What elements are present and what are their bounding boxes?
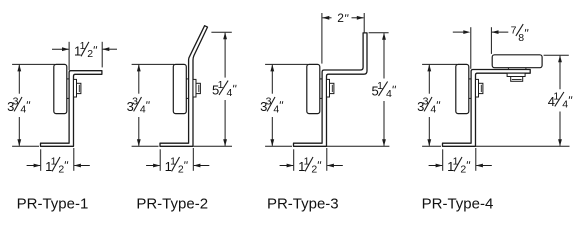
glass panel fig2 — [173, 64, 186, 113]
svg-text:2: 2 — [311, 163, 317, 175]
glass panel fig4 left — [456, 64, 469, 113]
svg-text:4: 4 — [386, 88, 392, 100]
svg-text:4: 4 — [430, 103, 436, 115]
dimension 3-3/4in fig2 — [127, 64, 175, 146]
dimension 1-1/2in bottom fig2 — [146, 148, 209, 175]
fastener clip fig4 top — [507, 73, 525, 81]
svg-text:PR-Type-1: PR-Type-1 — [17, 195, 89, 212]
svg-text:2: 2 — [58, 163, 64, 175]
dimension 1-1/2in top fig1 — [52, 40, 117, 70]
setting pads fig4 left — [469, 79, 471, 99]
svg-text:2: 2 — [178, 163, 184, 175]
dimension 2in top fig3 — [322, 11, 364, 63]
dimension 3-3/4in fig3 — [260, 64, 308, 146]
figure PR-Type-2 bracket profile with slanted tab — [160, 26, 208, 147]
dimension 4-1/4in fig4 — [476, 55, 572, 146]
svg-text:4: 4 — [226, 87, 232, 99]
dimension 5-1/4in fig2 — [194, 32, 237, 146]
dimension 3-3/4in fig1 — [7, 64, 55, 146]
svg-text:2: 2 — [337, 11, 344, 25]
dimension 5-1/4in fig3 — [327, 33, 396, 147]
dimension 1-1/2in bottom fig1 — [27, 148, 90, 175]
svg-text:4: 4 — [20, 103, 26, 115]
fastener clip fig1 — [74, 79, 81, 97]
setting pads fig4 top — [508, 68, 526, 69]
dimension 3-3/4in fig4 — [417, 64, 457, 146]
dimension 7/8in top fig4 — [453, 24, 528, 69]
figure PR-Type-1 bracket profile — [41, 71, 102, 147]
svg-text:PR-Type-4: PR-Type-4 — [422, 195, 494, 212]
figure PR-Type-3 bracket profile with upturned flange — [294, 33, 368, 146]
glass panel fig4 top — [492, 55, 542, 68]
svg-text:4: 4 — [562, 98, 568, 110]
svg-text:7: 7 — [511, 25, 517, 37]
svg-text:PR-Type-2: PR-Type-2 — [136, 195, 208, 212]
figure PR-Type-4 bracket profile with long top flange — [443, 70, 531, 147]
fastener clip fig2 — [193, 79, 200, 97]
glass panel fig1 — [54, 64, 67, 113]
dimension 1-1/2in bottom fig4 — [429, 148, 492, 175]
setting pads fig3 — [320, 79, 322, 99]
svg-text:4: 4 — [140, 103, 146, 115]
fastener clip fig3 — [327, 79, 334, 97]
fastener clip fig4 right — [476, 79, 483, 97]
svg-text:4: 4 — [273, 103, 279, 115]
setting pads fig2 — [186, 79, 188, 99]
glass panel fig3 — [307, 64, 320, 113]
dimension 1-1/2in bottom fig3 — [280, 148, 343, 175]
svg-text:8: 8 — [518, 32, 524, 44]
svg-text:2: 2 — [87, 48, 93, 60]
svg-text:2: 2 — [460, 163, 466, 175]
setting pads fig1 — [67, 79, 69, 99]
svg-text:PR-Type-3: PR-Type-3 — [267, 195, 339, 212]
